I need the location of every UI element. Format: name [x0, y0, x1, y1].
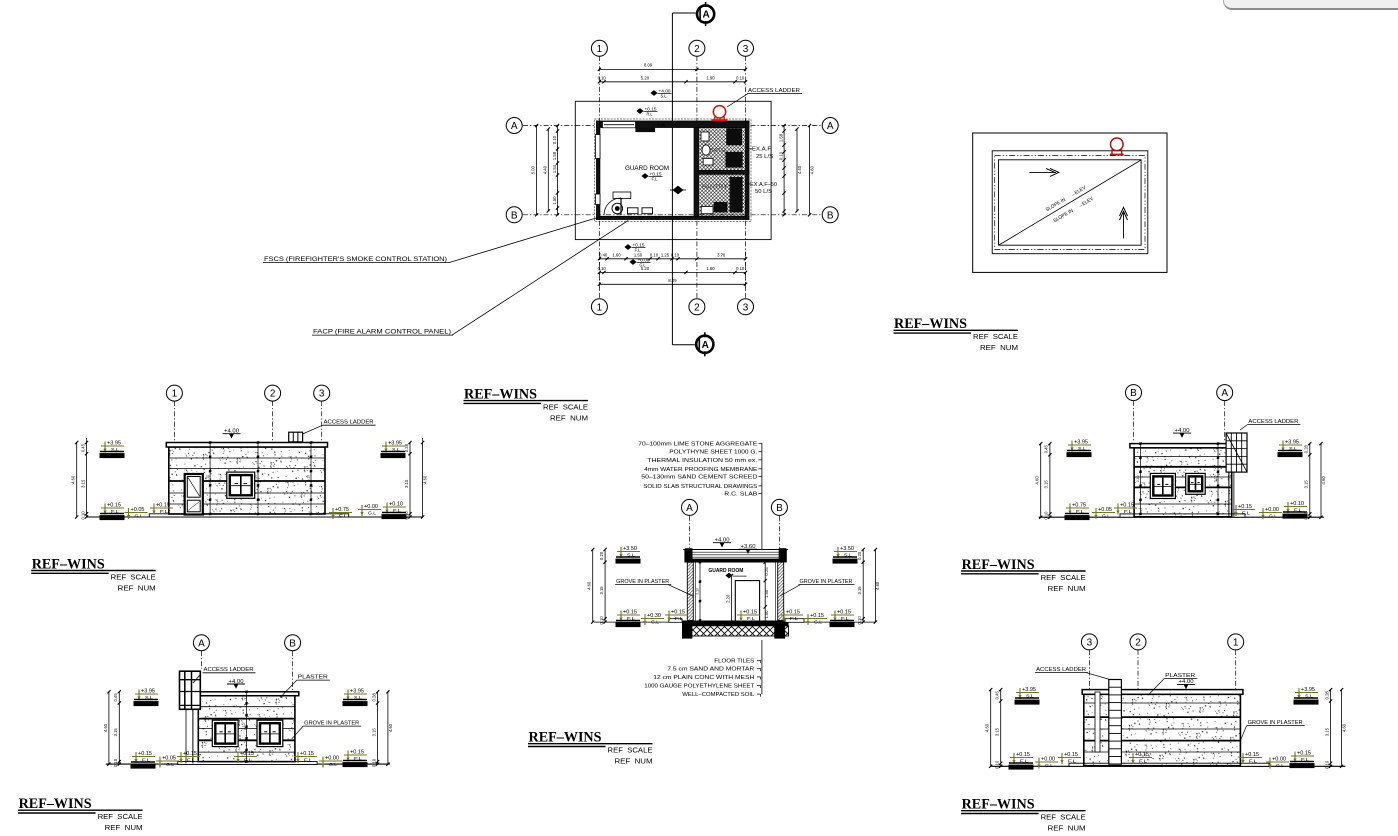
- svg-text:0.10: 0.10: [552, 135, 557, 144]
- svg-text:2.20: 2.20: [725, 594, 730, 603]
- svg-text:0.10: 0.10: [80, 511, 85, 520]
- svg-text:BATH: BATH: [710, 148, 726, 154]
- svg-text:1.54: 1.54: [552, 164, 557, 173]
- svg-text:A: A: [1221, 388, 1228, 399]
- svg-text:3: 3: [1087, 638, 1093, 649]
- svg-text:REF SCALE: REF SCALE: [973, 332, 1018, 341]
- svg-text:1.58: 1.58: [552, 151, 557, 160]
- svg-text:WELL–COMPACTED SOIL: WELL–COMPACTED SOIL: [682, 692, 755, 698]
- svg-text:7.5 cm SAND AND MORTAR: 7.5 cm SAND AND MORTAR: [667, 667, 754, 673]
- svg-text:F.L: F.L: [1242, 511, 1251, 516]
- svg-text:G.L: G.L: [1269, 514, 1277, 519]
- svg-text:REF NUM: REF NUM: [1048, 824, 1086, 833]
- svg-text:PANTRY: PANTRY: [702, 184, 728, 190]
- svg-text:3.15: 3.15: [1044, 480, 1049, 489]
- svg-text:0.10: 0.10: [857, 616, 862, 625]
- svg-text:G.L: G.L: [814, 620, 822, 625]
- svg-text:1.50: 1.50: [634, 252, 643, 257]
- svg-text:4.60: 4.60: [810, 165, 815, 174]
- svg-text:G.L: G.L: [329, 762, 337, 767]
- svg-text:3.15: 3.15: [371, 728, 376, 737]
- svg-text:3.15: 3.15: [1304, 480, 1309, 489]
- svg-text:3: 3: [743, 302, 749, 313]
- svg-text:F.L: F.L: [244, 758, 253, 763]
- svg-text:0.45: 0.45: [995, 691, 1000, 700]
- svg-text:G.L: G.L: [135, 514, 143, 519]
- svg-text:R.L: R.L: [647, 112, 654, 117]
- svg-text:0.10: 0.10: [371, 758, 376, 767]
- svg-text:REF NUM: REF NUM: [980, 343, 1018, 352]
- svg-text:1: 1: [172, 389, 178, 400]
- svg-text:F.L: F.L: [790, 616, 799, 621]
- svg-text:4mm WATER PROOFING MEMBRANE: 4mm WATER PROOFING MEMBRANE: [644, 467, 757, 473]
- svg-text:G.L: G.L: [651, 620, 659, 625]
- svg-text:3.15: 3.15: [113, 728, 118, 737]
- svg-text:4.60: 4.60: [875, 581, 880, 590]
- svg-text:0.10: 0.10: [696, 588, 700, 595]
- svg-text:G.L: G.L: [1045, 763, 1053, 768]
- svg-text:0.10: 0.10: [254, 475, 258, 482]
- svg-text:F.L: F.L: [187, 758, 196, 763]
- svg-text:EX.A.F: EX.A.F: [752, 147, 772, 153]
- svg-text:5.06: 5.06: [657, 123, 666, 128]
- svg-text:3.15: 3.15: [80, 479, 85, 488]
- svg-text:0.10: 0.10: [1214, 475, 1218, 482]
- svg-text:0.20: 0.20: [857, 551, 862, 560]
- svg-text:70–100mm LIME STONE AGGREGATE: 70–100mm LIME STONE AGGREGATE: [638, 441, 757, 447]
- svg-text:R.C. SLAB: R.C. SLAB: [724, 492, 757, 498]
- svg-text:REF SCALE: REF SCALE: [98, 812, 143, 821]
- svg-text:ACCESS LADDER: ACCESS LADDER: [204, 667, 254, 673]
- svg-text:0.10: 0.10: [242, 723, 246, 730]
- svg-text:0.10: 0.10: [598, 75, 607, 80]
- svg-text:25 L/S: 25 L/S: [756, 154, 773, 160]
- svg-text:REF SCALE: REF SCALE: [543, 402, 588, 411]
- svg-text:1.90: 1.90: [706, 75, 715, 80]
- svg-text:F.L: F.L: [675, 616, 684, 621]
- svg-text:3.15: 3.15: [404, 479, 409, 488]
- svg-text:3.15: 3.15: [857, 586, 862, 595]
- svg-text:A: A: [686, 503, 693, 514]
- svg-text:ACCESS LADDER: ACCESS LADDER: [324, 420, 374, 426]
- svg-text:0.28: 0.28: [371, 693, 376, 702]
- svg-text:0.28: 0.28: [1324, 691, 1329, 700]
- svg-text:4.60: 4.60: [1341, 723, 1346, 732]
- svg-text:0.25: 0.25: [764, 567, 769, 576]
- svg-text:4.60: 4.60: [587, 581, 592, 590]
- svg-text:A: A: [827, 121, 834, 132]
- svg-text:REF SCALE: REF SCALE: [111, 572, 156, 581]
- svg-text:F.L: F.L: [1124, 509, 1133, 514]
- svg-text:F.L: F.L: [339, 514, 348, 519]
- svg-text:SLOPE IN: SLOPE IN: [1052, 208, 1074, 225]
- svg-text:0.20: 0.20: [599, 551, 604, 560]
- svg-text:0.10: 0.10: [206, 475, 210, 482]
- svg-text:4.60: 4.60: [1035, 476, 1040, 485]
- svg-text:F.L: F.L: [1139, 759, 1148, 764]
- svg-text:0.10: 0.10: [307, 475, 311, 482]
- svg-text:ACCESS LADDER: ACCESS LADDER: [1248, 419, 1298, 425]
- svg-text:POLYTHYNE SHEET 1000 G.: POLYTHYNE SHEET 1000 G.: [669, 450, 757, 456]
- svg-text:3.15: 3.15: [1324, 727, 1329, 736]
- svg-text:0.10: 0.10: [779, 151, 784, 160]
- svg-text:50–130mm SAND CEMENT SCREED: 50–130mm SAND CEMENT SCREED: [641, 475, 757, 481]
- svg-text:1.00: 1.00: [764, 610, 769, 619]
- svg-text:0.10: 0.10: [1044, 511, 1049, 520]
- svg-text:50 L/S: 50 L/S: [755, 189, 772, 195]
- svg-text:0.10: 0.10: [404, 511, 409, 520]
- svg-text:0.10: 0.10: [1324, 760, 1329, 769]
- svg-text:0.10: 0.10: [671, 252, 680, 257]
- svg-text:0.45: 0.45: [1044, 444, 1049, 453]
- svg-text:0.10: 0.10: [995, 760, 1000, 769]
- svg-text:4.60: 4.60: [103, 723, 108, 732]
- svg-text:S.L: S.L: [661, 94, 668, 99]
- svg-text:A: A: [511, 121, 518, 132]
- svg-text:1.60: 1.60: [706, 266, 715, 271]
- svg-text:0.28: 0.28: [404, 443, 409, 452]
- svg-text:2: 2: [1135, 638, 1141, 649]
- svg-text:F.L: F.L: [652, 177, 659, 182]
- svg-text:0.10: 0.10: [113, 758, 118, 767]
- svg-text:1.50: 1.50: [552, 196, 557, 205]
- svg-text:F.L: F.L: [160, 509, 169, 514]
- svg-text:1: 1: [597, 302, 603, 313]
- svg-text:G.L: G.L: [166, 762, 174, 767]
- svg-text:SOLID SLAB STRUCTURAL DRAWINGS: SOLID SLAB STRUCTURAL DRAWINGS: [643, 484, 757, 490]
- svg-text:PLASTER: PLASTER: [298, 675, 328, 681]
- svg-text:3.15: 3.15: [995, 727, 1000, 736]
- svg-text:3.15: 3.15: [599, 586, 604, 595]
- svg-text:F.L: F.L: [1068, 759, 1077, 764]
- svg-text:4.60: 4.60: [422, 475, 427, 484]
- svg-text:1000 GAUGE POLYETHYLENE SHEET: 1000 GAUGE POLYETHYLENE SHEET: [644, 684, 754, 690]
- svg-text:GROVE IN PLASTER: GROVE IN PLASTER: [1248, 720, 1303, 726]
- svg-text:4.40: 4.40: [797, 165, 802, 174]
- svg-text:REF NUM: REF NUM: [615, 757, 653, 766]
- svg-text:REF SCALE: REF SCALE: [1041, 813, 1086, 822]
- svg-text:B: B: [511, 210, 518, 221]
- svg-text:REF SCALE: REF SCALE: [1041, 573, 1086, 582]
- svg-text:GROVE IN PLASTER: GROVE IN PLASTER: [616, 579, 669, 585]
- svg-text:3: 3: [319, 389, 325, 400]
- svg-text:1.58: 1.58: [779, 133, 784, 142]
- svg-text:A: A: [198, 638, 205, 649]
- svg-text:4.60: 4.60: [985, 723, 990, 732]
- svg-text:FSCS (FIREFIGHTER'S SMOKE CONT: FSCS (FIREFIGHTER'S SMOKE CONTROL STATIO…: [264, 256, 447, 263]
- svg-text:0.45: 0.45: [113, 693, 118, 702]
- svg-text:THERMAL INSULATION 50 mm ex.: THERMAL INSULATION 50 mm ex.: [647, 458, 757, 464]
- svg-text:REF NUM: REF NUM: [550, 413, 588, 422]
- svg-text:F.L: F.L: [747, 616, 756, 621]
- svg-text:2: 2: [270, 389, 276, 400]
- svg-text:3.70: 3.70: [717, 252, 726, 257]
- svg-text:ACCESS LADDER: ACCESS LADDER: [1036, 667, 1086, 673]
- svg-text:REF NUM: REF NUM: [1048, 584, 1086, 593]
- svg-text:1: 1: [1233, 638, 1239, 649]
- svg-text:3: 3: [743, 44, 749, 55]
- svg-text:F.L: F.L: [304, 758, 313, 763]
- svg-text:4.60: 4.60: [71, 475, 76, 484]
- svg-text:5.20: 5.20: [641, 266, 650, 271]
- svg-text:GUARD ROOM: GUARD ROOM: [708, 568, 743, 574]
- svg-text:B: B: [1130, 388, 1137, 399]
- svg-text:GUARD ROOM: GUARD ROOM: [625, 165, 669, 172]
- svg-text:0.40: 0.40: [599, 252, 608, 257]
- svg-text:2: 2: [694, 302, 700, 313]
- svg-text:0.45: 0.45: [80, 443, 85, 452]
- svg-text:1.60: 1.60: [612, 252, 621, 257]
- svg-text:B: B: [289, 638, 296, 649]
- svg-text:FLOOR TILES: FLOOR TILES: [714, 658, 754, 664]
- svg-text:0.28: 0.28: [1304, 444, 1309, 453]
- svg-text:5.20: 5.20: [641, 75, 650, 80]
- svg-text:1.50: 1.50: [764, 589, 769, 598]
- svg-text:EX.A.F–50: EX.A.F–50: [750, 182, 777, 188]
- svg-text:REF NUM: REF NUM: [118, 583, 156, 592]
- svg-text:B: B: [776, 503, 783, 514]
- svg-text:4.60: 4.60: [388, 723, 393, 732]
- svg-text:A: A: [702, 10, 709, 21]
- svg-text:0.10: 0.10: [598, 266, 607, 271]
- svg-text:ACCESS LADDER: ACCESS LADDER: [748, 88, 800, 94]
- svg-text:0.10: 0.10: [736, 75, 745, 80]
- svg-text:G.L: G.L: [1102, 514, 1110, 519]
- svg-text:12 cm PLAIN CONC WITH MESH: 12 cm PLAIN CONC WITH MESH: [653, 675, 754, 681]
- svg-text:→ELEV: →ELEV: [1077, 196, 1095, 210]
- svg-text:0.10: 0.10: [650, 252, 659, 257]
- svg-text:1: 1: [597, 44, 603, 55]
- svg-text:REF SCALE: REF SCALE: [608, 746, 653, 755]
- svg-text:0.10: 0.10: [1304, 511, 1309, 520]
- svg-text:GROVE IN PLASTER: GROVE IN PLASTER: [800, 579, 853, 585]
- svg-text:8.09: 8.09: [668, 278, 677, 283]
- svg-text:8.09: 8.09: [644, 63, 653, 68]
- svg-text:B: B: [827, 210, 834, 221]
- svg-text:G.L: G.L: [1276, 763, 1284, 768]
- svg-text:1.25: 1.25: [661, 252, 670, 257]
- svg-text:→ELEV: →ELEV: [1069, 185, 1087, 199]
- svg-text:0.10: 0.10: [1136, 475, 1140, 482]
- svg-text:PLASTER: PLASTER: [1165, 673, 1195, 679]
- svg-text:0.10: 0.10: [599, 616, 604, 625]
- svg-text:4.40: 4.40: [542, 165, 547, 174]
- svg-text:A: A: [702, 340, 709, 351]
- svg-text:0.10: 0.10: [736, 266, 745, 271]
- svg-text:FACP (FIRE ALARM CONTROL PANEL: FACP (FIRE ALARM CONTROL PANEL): [313, 329, 451, 336]
- svg-text:F.L: F.L: [1249, 759, 1258, 764]
- svg-text:G.L: G.L: [368, 511, 376, 516]
- svg-text:4.60: 4.60: [1321, 476, 1326, 485]
- svg-text:GROVE IN PLASTER: GROVE IN PLASTER: [304, 721, 359, 727]
- svg-text:REF NUM: REF NUM: [105, 823, 143, 832]
- svg-text:2: 2: [694, 44, 700, 55]
- svg-text:5.00: 5.00: [531, 165, 536, 174]
